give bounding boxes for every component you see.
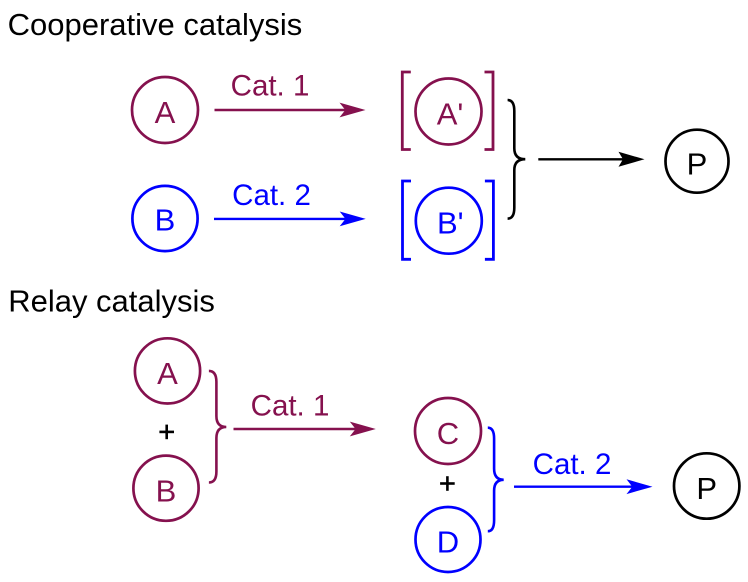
circle B [132,186,197,251]
bracket left (B') [403,181,412,259]
bracket right (A') [485,72,494,150]
svg-text:C: C [437,416,459,451]
arrow Cat. 2 (relay) [514,448,653,494]
svg-text:B': B' [437,206,464,241]
circle P (top) [666,130,729,193]
svg-text:B: B [156,473,177,508]
circle A [132,77,198,143]
svg-text:Cat. 2: Cat. 2 [533,448,612,481]
svg-text:Relay catalysis: Relay catalysis [8,284,215,319]
svg-text:A: A [155,95,176,130]
bracket left (A') [402,72,411,150]
circle P (relay) [674,453,739,518]
svg-text:Cat. 1: Cat. 1 [231,69,310,102]
circle A (relay) [135,338,200,403]
svg-text:Cat. 2: Cat. 2 [232,179,311,212]
circle C [415,398,481,464]
plus (A + B) [159,425,174,440]
circle D [416,507,481,572]
svg-text:P: P [687,147,708,182]
arrow Cat. 2 (top) [214,179,366,226]
svg-text:Cat. 1: Cat. 1 [251,390,330,423]
arrow Cat. 1 (top) [215,69,366,117]
circle A' [416,79,482,145]
svg-text:P: P [696,471,717,506]
arrow Cat. 1 (relay) [234,390,376,437]
bracket right (B') [485,181,494,259]
svg-text:Cooperative catalysis: Cooperative catalysis [8,7,303,42]
brace black (combining A' and B') [508,100,526,219]
svg-text:D: D [437,525,459,560]
svg-text:A': A' [437,97,464,132]
circle B (relay) [133,456,198,521]
svg-text:B: B [155,203,176,238]
arrow black to P [538,152,644,167]
svg-text:A: A [157,356,178,391]
plus (C + D) [440,476,455,491]
brace maroon (combining A and B) [209,371,226,483]
brace blue (combining C and D) [488,428,504,532]
circle B' [416,188,482,254]
